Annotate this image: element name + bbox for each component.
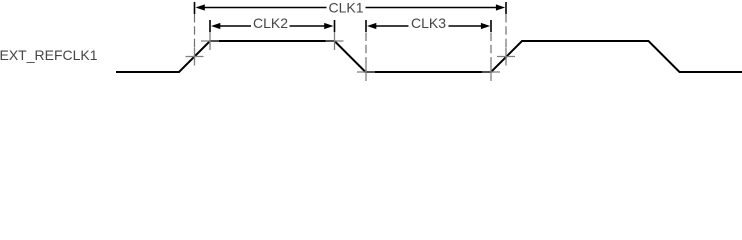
dashed extension line D4 (x=366) bbox=[365, 33, 367, 64]
svg-text:CLK1: CLK1 bbox=[328, 0, 363, 16]
waveform EXT_REFCLK1 bbox=[116, 41, 742, 72]
dimension arrow CLK1 bbox=[203, 7, 498, 9]
extension tick T5 (CLK3 right, x=491) bbox=[490, 20, 492, 32]
arrowhead CLK3 right bbox=[481, 23, 490, 29]
cross marker X1 at mid rising edge 1 (194.5,56.5) bbox=[186, 48, 204, 66]
arrowhead CLK2 left bbox=[211, 23, 220, 29]
cross marker X2 at top corner of rising edge 1 (210,41) bbox=[201, 32, 219, 50]
extension tick T1 (CLK1 left, x=194.5) bbox=[194, 2, 196, 14]
dashed extension line D5 (x=491) bbox=[490, 33, 492, 64]
dimension arrow CLK3 bbox=[374, 25, 483, 27]
cross marker X6 at mid rising edge 2 (506,56.5) bbox=[497, 48, 515, 66]
svg-text:CLK2: CLK2 bbox=[253, 15, 288, 31]
svg-text:EXT_REFCLK1: EXT_REFCLK1 bbox=[0, 47, 98, 63]
cross marker X4 at bottom corner of falling edge 1 (366,72) bbox=[357, 63, 375, 81]
cross marker X3 at top corner of falling edge 1 (334.5,41) bbox=[326, 32, 344, 50]
dashed extension line D6 (x=506) bbox=[505, 14, 507, 48]
extension tick T3 (CLK2 right, x=334.5) bbox=[334, 20, 336, 32]
arrowhead CLK2 right bbox=[324, 23, 333, 29]
arrowhead CLK1 left bbox=[196, 4, 205, 10]
svg-text:CLK3: CLK3 bbox=[411, 15, 446, 31]
extension tick T4 (CLK3 left, x=366) bbox=[365, 20, 367, 32]
dimension arrow CLK2 bbox=[218, 25, 326, 27]
dashed extension line D1 (x=194.5) bbox=[194, 14, 196, 48]
arrowhead CLK1 right bbox=[496, 4, 505, 10]
extension tick T2 (CLK2 left, x=210) bbox=[209, 20, 211, 32]
cross marker X5 at bottom corner of rising edge 2 (491,72) bbox=[482, 63, 500, 81]
arrowhead CLK3 left bbox=[367, 23, 376, 29]
extension tick T6 (CLK1 right, x=506) bbox=[505, 2, 507, 14]
